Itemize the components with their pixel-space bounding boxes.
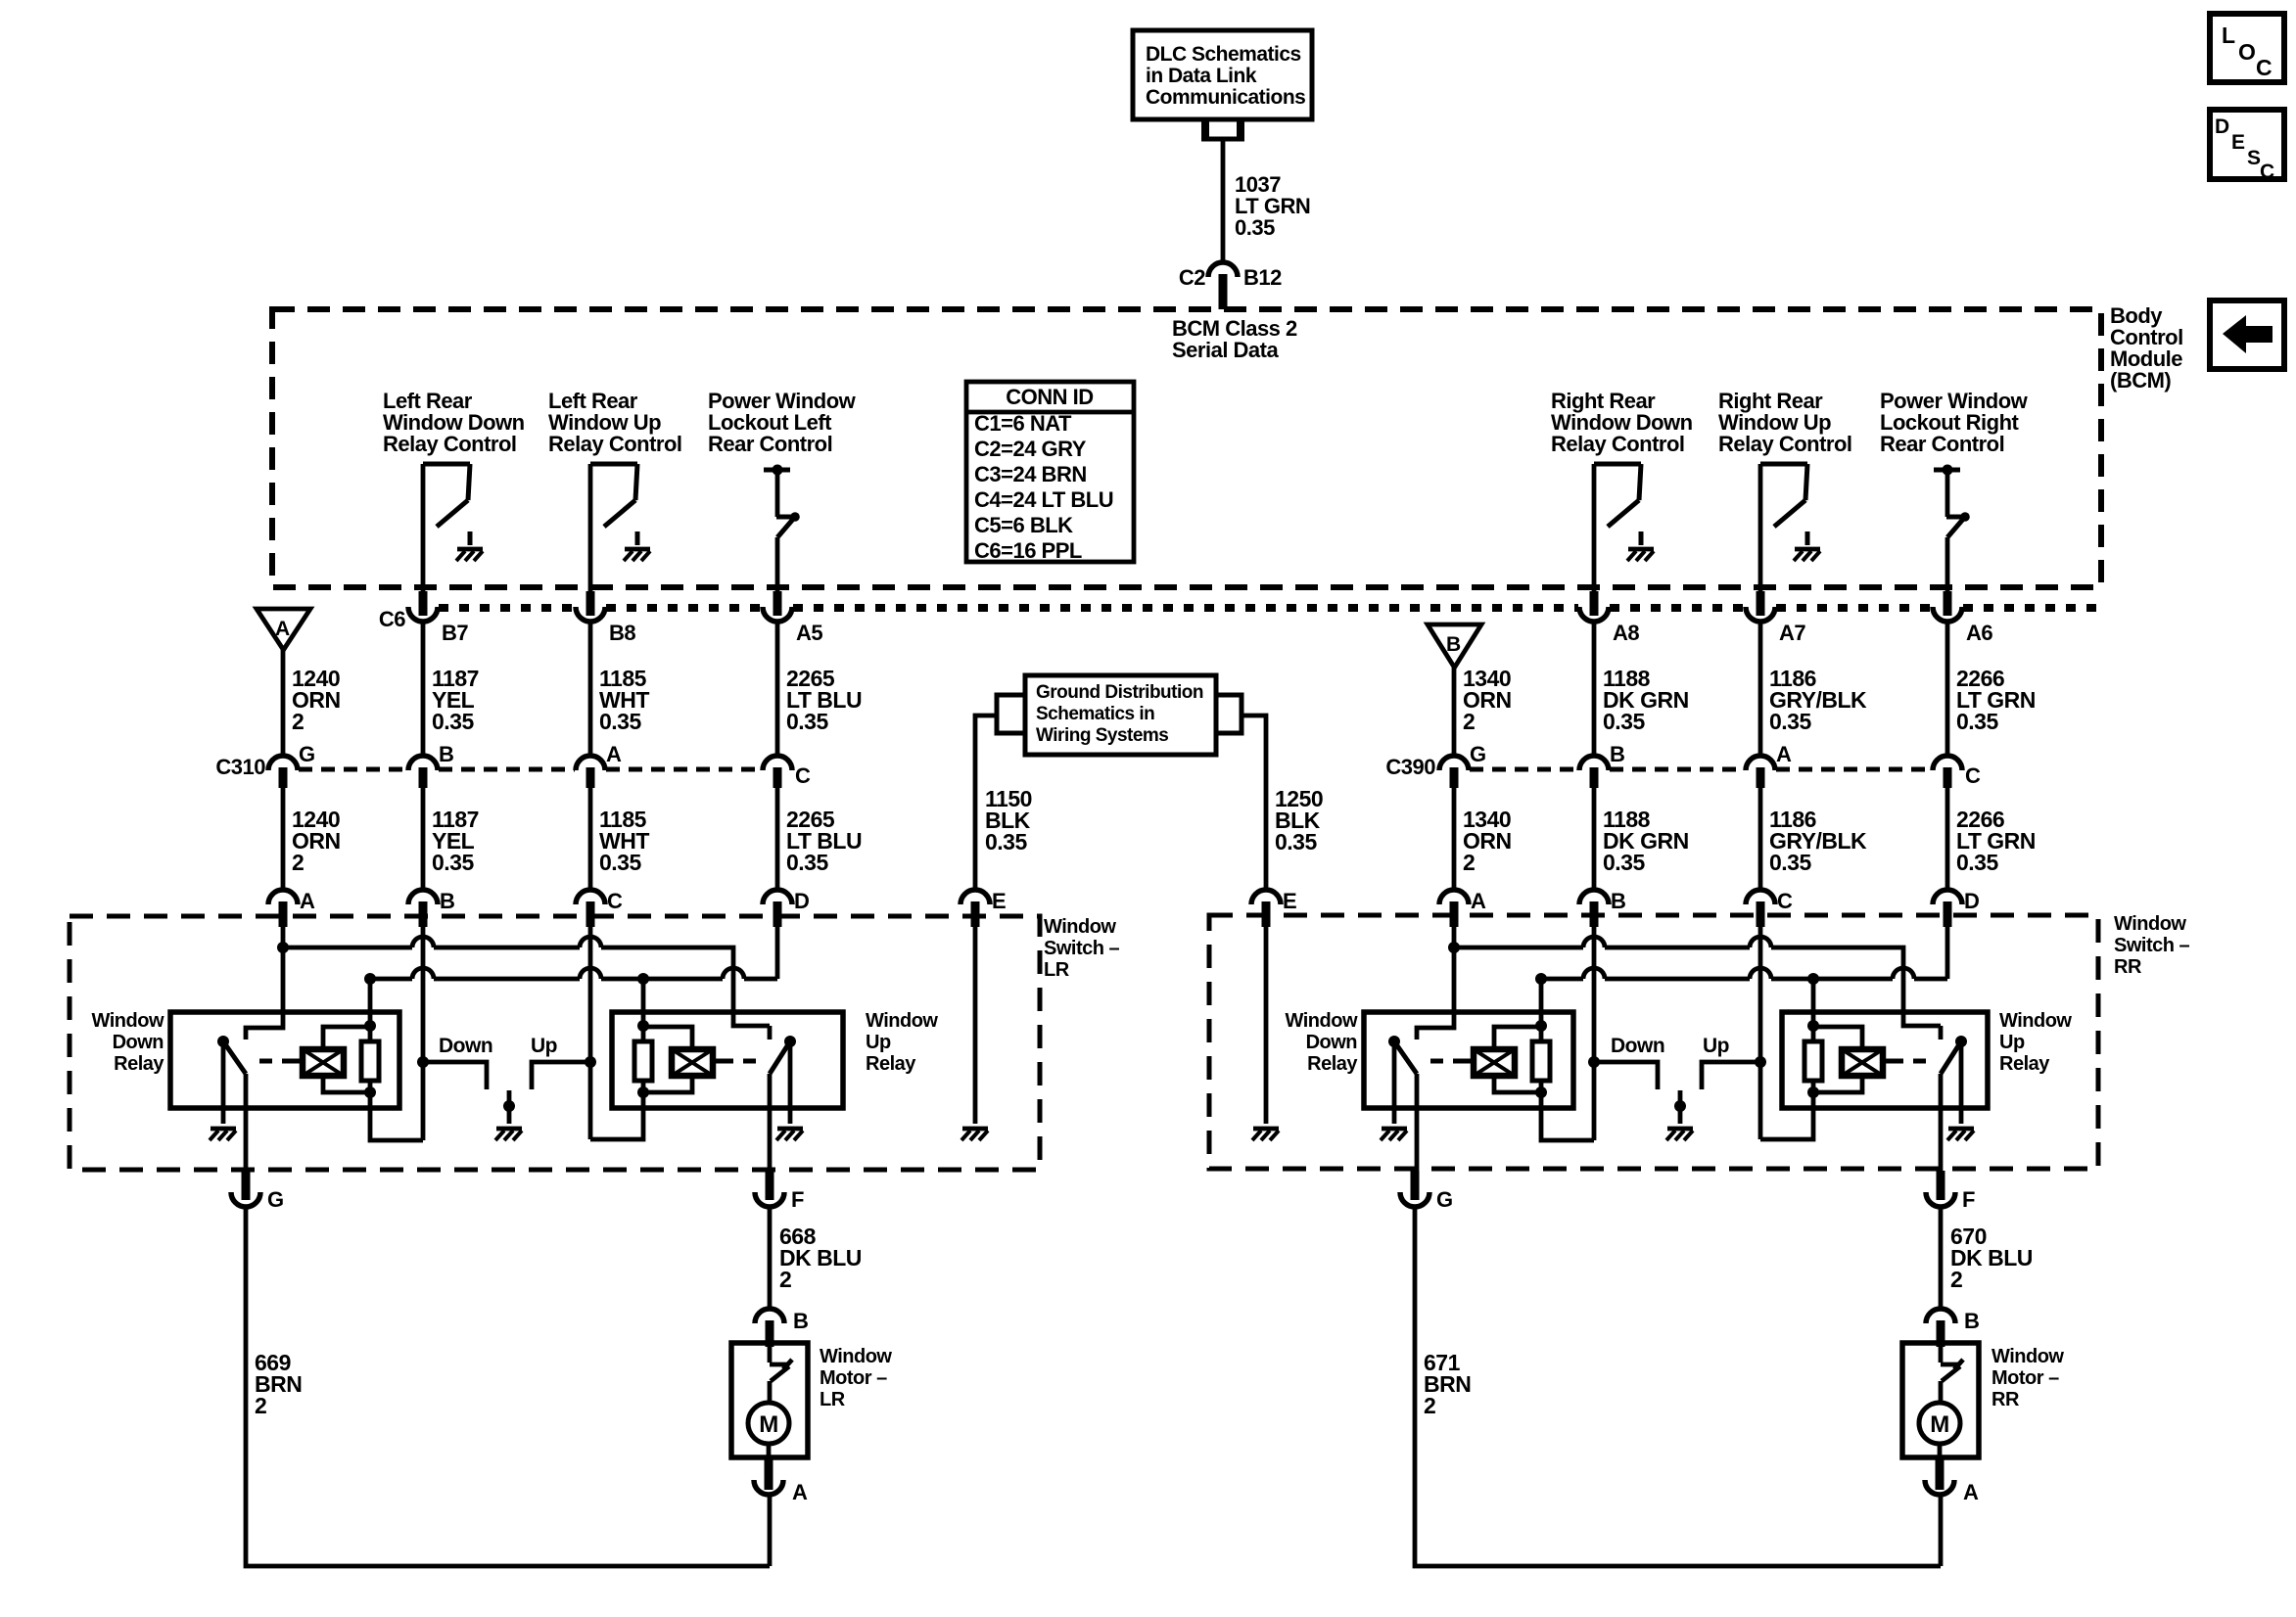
wire: [421, 622, 426, 754]
svg-text:C: C: [2260, 161, 2274, 183]
relay coil (down relay LR): [303, 1027, 370, 1092]
svg-text:DLC Schematics: DLC Schematics: [1146, 43, 1301, 66]
resistor (up relay LR): [634, 979, 652, 1098]
wire: [1945, 927, 1950, 979]
svg-text:0.35: 0.35: [786, 709, 828, 734]
connector pin A (C310): [576, 742, 622, 788]
connector pin G (RR): [1400, 1171, 1453, 1212]
connector pin G (LR): [231, 1171, 284, 1212]
switch Left Rear Window Down relay control: [423, 464, 470, 545]
connector pin A (window switch): [1439, 889, 1486, 927]
wire 671 BRN: [1415, 1207, 1941, 1566]
svg-text:Relay Control: Relay Control: [548, 432, 682, 456]
wire: [421, 788, 426, 889]
label Window Up Relay (LR): [866, 1010, 938, 1075]
ground: [1627, 549, 1654, 561]
LOC reference box: [2210, 14, 2284, 82]
ground: [495, 1129, 522, 1140]
wire: [588, 788, 593, 889]
wire: [1592, 622, 1597, 754]
connector pin B (window switch): [408, 889, 454, 927]
svg-text:B: B: [1964, 1309, 1979, 1333]
connector pin D (window switch): [1933, 889, 1979, 927]
svg-text:Relay Control: Relay Control: [1551, 432, 1685, 456]
svg-text:C6: C6: [379, 607, 405, 631]
wire 1250 BLK: [1242, 716, 1266, 889]
svg-text:DK BLU: DK BLU: [1950, 1245, 2033, 1270]
connector pin A8: [1579, 591, 1639, 645]
wire: [588, 464, 593, 591]
switch Up contact (RR): [1702, 1035, 1760, 1089]
svg-text:A7: A7: [1779, 621, 1805, 645]
relay contact (down relay LR): [217, 1036, 246, 1074]
svg-text:S: S: [2247, 147, 2261, 169]
svg-text:G: G: [299, 742, 315, 766]
wire 1150 BLK: [975, 716, 997, 889]
svg-text:0.35: 0.35: [1275, 829, 1317, 855]
svg-text:RR: RR: [2114, 956, 2142, 978]
label 1187 YEL 0.35: [432, 807, 479, 875]
svg-text:2: 2: [255, 1393, 266, 1418]
connector pin C (window switch): [1746, 889, 1793, 927]
connector pin F (RR): [1926, 1171, 1975, 1212]
svg-text:C: C: [1777, 889, 1793, 913]
relay Window Up Relay (LR) box: [612, 1012, 843, 1108]
arrow marker box: [2210, 300, 2284, 369]
label Left Rear Window Down Relay Control: [383, 389, 525, 456]
svg-text:Schematics in: Schematics in: [1036, 704, 1154, 724]
Window Switch - LR box: [70, 916, 1120, 1170]
svg-text:Down: Down: [1611, 1035, 1664, 1057]
label 669 BRN 2: [255, 1350, 302, 1418]
svg-text:RR: RR: [1991, 1389, 2020, 1410]
wire: [768, 1074, 773, 1171]
svg-text:0.35: 0.35: [1769, 850, 1811, 875]
wire lockout feed bus (LR): [364, 968, 777, 985]
svg-text:F: F: [1962, 1187, 1975, 1212]
label 1186 GRY/BLK 0.35: [1769, 807, 1867, 875]
relay coil (down relay RR): [1474, 1027, 1541, 1092]
connector pin B8: [576, 591, 635, 645]
svg-text:Down: Down: [1306, 1032, 1357, 1053]
connector pin C (C310): [763, 756, 811, 788]
svg-text:0.35: 0.35: [599, 850, 641, 875]
svg-text:A: A: [1776, 742, 1792, 766]
svg-text:2: 2: [292, 709, 304, 734]
svg-text:C: C: [2256, 55, 2272, 80]
svg-text:D: D: [2215, 115, 2229, 138]
svg-text:Serial Data: Serial Data: [1172, 338, 1279, 362]
Body Control Module (BCM) box: [272, 303, 2183, 587]
node A (triangle): [257, 609, 310, 650]
connector pin C (C390): [1933, 756, 1981, 788]
DESC reference box: [2210, 110, 2284, 183]
svg-text:A: A: [792, 1480, 808, 1504]
svg-text:Window: Window: [866, 1010, 938, 1032]
svg-text:Up: Up: [531, 1035, 557, 1057]
svg-text:Up: Up: [1703, 1035, 1729, 1057]
wire: [417, 927, 429, 1140]
switch power window lockout: [764, 465, 800, 592]
wire: [1939, 1074, 1944, 1171]
resistor (up relay RR): [1804, 979, 1822, 1098]
label 1150 BLK 0.35: [985, 786, 1032, 855]
svg-text:Communications: Communications: [1146, 86, 1305, 109]
svg-text:Motor –: Motor –: [820, 1367, 887, 1389]
actuation link (down relay LR): [259, 1059, 303, 1064]
label 1037 LT GRN 0.35: [1235, 172, 1310, 240]
svg-text:C390: C390: [1385, 755, 1435, 779]
switch Right Rear Window Down relay control: [1594, 464, 1641, 545]
svg-text:A: A: [606, 742, 622, 766]
svg-text:C2=24 GRY: C2=24 GRY: [974, 437, 1087, 461]
svg-text:M: M: [759, 1411, 778, 1438]
switch common pivot ground (RR): [1674, 1090, 1686, 1124]
actuation link (up relay LR): [713, 1059, 756, 1064]
label 1340 ORN 2: [1463, 666, 1512, 734]
relay Window Down Relay (RR) box: [1364, 1012, 1573, 1108]
ground: [1794, 549, 1820, 561]
switch Up contact (LR): [531, 1035, 590, 1089]
connector pin F (LR): [755, 1171, 804, 1212]
relay coil (up relay RR): [1813, 1027, 1883, 1092]
wire: [1417, 927, 1454, 1039]
wire: [246, 927, 283, 1039]
actuation link (down relay RR): [1430, 1059, 1474, 1064]
svg-text:A: A: [275, 618, 290, 640]
svg-text:0.35: 0.35: [1603, 709, 1645, 734]
svg-text:B: B: [793, 1309, 808, 1333]
wire: [588, 622, 593, 754]
wire: [1415, 1074, 1420, 1171]
connector pin G (C310): [268, 742, 315, 788]
svg-text:Wiring Systems: Wiring Systems: [1036, 725, 1168, 746]
connector pin C (window switch): [576, 889, 623, 927]
resistor (down relay LR): [361, 979, 379, 1098]
label 2266 LT GRN 0.35: [1956, 807, 2036, 875]
svg-text:Relay: Relay: [114, 1053, 164, 1075]
svg-text:Window: Window: [1286, 1010, 1358, 1032]
svg-text:2: 2: [1463, 850, 1475, 875]
wire 668 DK BLU: [768, 1207, 773, 1307]
svg-text:Window: Window: [1999, 1010, 2072, 1032]
svg-text:A: A: [300, 889, 315, 913]
wire: [1945, 622, 1950, 754]
svg-text:C2: C2: [1179, 265, 1205, 290]
connector C2 / B12: [1179, 262, 1282, 309]
label 668 DK BLU 2: [779, 1224, 862, 1292]
wire bus down-feed (RR): [1448, 937, 1941, 1039]
svg-text:0.35: 0.35: [432, 850, 474, 875]
label Power Window Lockout Right Rear Control: [1880, 389, 2029, 456]
label 671 BRN 2: [1424, 1350, 1471, 1418]
wire 1037 LT GRN: [1221, 139, 1226, 260]
wire bus down-feed (LR): [277, 937, 770, 1039]
ground: [210, 1129, 236, 1140]
svg-text:A: A: [1471, 889, 1486, 913]
wire: [281, 650, 286, 754]
svg-text:A5: A5: [796, 621, 822, 645]
svg-text:E: E: [2231, 131, 2245, 154]
label 2266 LT GRN 0.35: [1956, 666, 2036, 734]
wire: [1588, 927, 1600, 1140]
svg-text:0.35: 0.35: [432, 709, 474, 734]
wire: [1959, 1041, 1964, 1124]
svg-text:in Data Link: in Data Link: [1146, 65, 1257, 87]
ground: [776, 1129, 803, 1140]
bracket right: [1216, 695, 1242, 733]
connector pin D (window switch): [763, 889, 809, 927]
svg-text:Up: Up: [866, 1032, 891, 1053]
resistor (down relay RR): [1532, 979, 1550, 1098]
svg-text:A6: A6: [1966, 621, 1992, 645]
switch Right Rear Window Up relay control: [1760, 464, 1807, 545]
wire: [244, 1074, 249, 1171]
svg-text:Window: Window: [1044, 916, 1116, 938]
relay contact (up relay LR): [770, 1036, 796, 1074]
svg-text:G: G: [1470, 742, 1486, 766]
svg-text:G: G: [1436, 1187, 1453, 1212]
svg-text:Relay Control: Relay Control: [383, 432, 517, 456]
label 2265 LT BLU 0.35: [786, 666, 862, 734]
svg-text:0.35: 0.35: [985, 829, 1027, 855]
ground: [1666, 1129, 1693, 1140]
svg-text:0.35: 0.35: [1956, 850, 1998, 875]
Window Switch - RR box: [1209, 913, 2190, 1169]
switch power window lockout: [1934, 465, 1970, 592]
connector pin G (C390): [1439, 742, 1486, 788]
node B (triangle): [1428, 624, 1481, 668]
label Window Down Relay (LR): [92, 1010, 165, 1075]
label 670 DK BLU 2: [1950, 1224, 2033, 1292]
ground: [1381, 1129, 1407, 1140]
connector row C390 (dashed): [1470, 767, 1932, 772]
label 1240 ORN 2: [292, 807, 341, 875]
svg-text:2: 2: [292, 850, 304, 875]
ground: [624, 549, 650, 561]
wire: [1452, 788, 1457, 889]
label Left Rear Window Up Relay Control: [548, 389, 682, 456]
node BCM Class 2 Serial Data: [1172, 316, 1297, 362]
relay contact (up relay RR): [1941, 1036, 1967, 1074]
svg-text:G: G: [267, 1187, 284, 1212]
DLC connector fork: [1201, 119, 1244, 139]
ground: [456, 549, 483, 561]
svg-text:2: 2: [779, 1267, 791, 1292]
connector pin B (motor LR): [755, 1309, 808, 1347]
CONN ID table: [966, 382, 1134, 563]
wire 669 BRN: [246, 1207, 770, 1566]
svg-text:CONN ID: CONN ID: [1006, 385, 1093, 409]
wire: [1755, 927, 1766, 1139]
svg-text:E: E: [992, 889, 1006, 913]
wire: [1758, 622, 1763, 754]
svg-text:Window: Window: [820, 1346, 892, 1367]
svg-text:E: E: [1283, 889, 1296, 913]
svg-text:Relay: Relay: [1307, 1053, 1358, 1075]
connector pin B7: [379, 591, 469, 645]
svg-text:0.35: 0.35: [1603, 850, 1645, 875]
label 1250 BLK 0.35: [1275, 786, 1323, 855]
svg-text:Relay: Relay: [866, 1053, 916, 1075]
label C390: [1385, 755, 1435, 779]
Ground Distribution reference box: [1025, 675, 1216, 755]
switch Down contact (RR): [1594, 1035, 1664, 1089]
label 1188 DK GRN 0.35: [1603, 807, 1689, 875]
svg-text:Down: Down: [113, 1032, 164, 1053]
svg-text:Motor –: Motor –: [1991, 1367, 2059, 1389]
wire: [421, 464, 426, 591]
actuation link (up relay RR): [1883, 1059, 1927, 1064]
wire: [1945, 788, 1950, 889]
svg-text:Relay Control: Relay Control: [1718, 432, 1852, 456]
ground: [1947, 1129, 1974, 1140]
svg-text:B12: B12: [1243, 265, 1282, 290]
svg-text:C4=24 LT BLU: C4=24 LT BLU: [974, 487, 1113, 512]
svg-text:0.35: 0.35: [1769, 709, 1811, 734]
svg-text:F: F: [791, 1187, 804, 1212]
svg-text:(BCM): (BCM): [2110, 368, 2171, 393]
wire: [1760, 1092, 1813, 1139]
svg-text:C3=24 BRN: C3=24 BRN: [974, 462, 1087, 486]
BCM connector row (dotted): [439, 604, 2101, 612]
wire: [1758, 464, 1763, 591]
svg-text:C5=6 BLK: C5=6 BLK: [974, 513, 1073, 537]
relay contact (down relay RR): [1388, 1036, 1417, 1074]
svg-text:0.35: 0.35: [1956, 709, 1998, 734]
svg-text:D: D: [1964, 889, 1979, 913]
svg-text:Ground Distribution: Ground Distribution: [1036, 682, 1203, 703]
label Right Rear Window Up Relay Control: [1718, 389, 1852, 456]
label Window Up Relay (RR): [1999, 1010, 2072, 1075]
svg-text:B: B: [1611, 889, 1625, 913]
wire: [775, 622, 780, 754]
relay coil (up relay LR): [643, 1027, 713, 1092]
svg-text:B7: B7: [442, 621, 468, 645]
svg-text:0.35: 0.35: [599, 709, 641, 734]
wire: [1541, 1092, 1594, 1140]
wire lockout feed bus (RR): [1535, 968, 1947, 985]
connector row C310 (dashed): [299, 767, 762, 772]
connector pin B (window switch): [1579, 889, 1625, 927]
svg-text:O: O: [2238, 39, 2255, 65]
relay Window Up Relay (RR) box: [1782, 1012, 1988, 1108]
svg-text:Window: Window: [2114, 913, 2186, 935]
connector pin A (C390): [1746, 742, 1792, 788]
svg-text:Switch –: Switch –: [1044, 938, 1120, 959]
wire: [788, 1041, 793, 1124]
wire: [1592, 464, 1597, 591]
wire ground lead (RR): [1264, 927, 1269, 1124]
ground: [961, 1129, 988, 1140]
svg-text:Rear Control: Rear Control: [708, 432, 832, 456]
label Power Window Lockout Left Rear Control: [708, 389, 857, 456]
label C310: [215, 755, 265, 779]
connector pin A (window switch): [268, 889, 315, 927]
wire: [1758, 788, 1763, 889]
label Right Rear Window Down Relay Control: [1551, 389, 1693, 456]
connector pin A (motor LR): [754, 1457, 808, 1504]
connector pin E (window switch): [1251, 889, 1296, 927]
svg-text:2: 2: [1424, 1393, 1435, 1418]
svg-text:B: B: [1446, 633, 1461, 656]
wire: [1592, 788, 1597, 889]
relay Window Down Relay (LR) box: [170, 1012, 399, 1108]
switch Down contact (LR): [423, 1035, 492, 1089]
wire: [1392, 1041, 1397, 1124]
svg-text:M: M: [1930, 1411, 1949, 1438]
wire: [585, 927, 596, 1139]
connector pin B (C310): [408, 742, 453, 788]
wire ground lead (LR): [973, 927, 978, 1124]
wire: [1452, 668, 1457, 754]
svg-text:2: 2: [1950, 1267, 1962, 1292]
svg-text:Down: Down: [439, 1035, 492, 1057]
bracket left: [997, 695, 1025, 733]
label 1188 DK GRN 0.35: [1603, 666, 1689, 734]
motor Window Motor - LR: [731, 1343, 892, 1457]
svg-text:Rear Control: Rear Control: [1880, 432, 2004, 456]
svg-text:L: L: [2222, 23, 2235, 48]
label Window Down Relay (RR): [1286, 1010, 1359, 1075]
DLC Schematics reference box: [1133, 30, 1312, 119]
label 1340 ORN 2: [1463, 807, 1512, 875]
svg-text:B: B: [440, 889, 454, 913]
label 1186 GRY/BLK 0.35: [1769, 666, 1867, 734]
switch Left Rear Window Up relay control: [590, 464, 637, 545]
connector pin A7: [1746, 591, 1805, 645]
connector pin B (C390): [1579, 742, 1624, 788]
connector pin A (motor RR): [1925, 1457, 1979, 1504]
svg-text:Up: Up: [1999, 1032, 2025, 1053]
connector pin A5: [763, 591, 822, 645]
svg-text:0.35: 0.35: [786, 850, 828, 875]
wire: [281, 788, 286, 889]
label 2265 LT BLU 0.35: [786, 807, 862, 875]
svg-text:C310: C310: [215, 755, 265, 779]
label 1187 YEL 0.35: [432, 666, 479, 734]
wire: [775, 788, 780, 889]
svg-text:D: D: [794, 889, 809, 913]
ground: [1252, 1129, 1279, 1140]
connector pin E (window switch): [961, 889, 1006, 927]
svg-text:C1=6 NAT: C1=6 NAT: [974, 411, 1072, 436]
svg-text:C: C: [795, 763, 811, 788]
connector pin A6: [1933, 591, 1992, 645]
wire: [370, 1092, 423, 1140]
svg-text:A: A: [1963, 1480, 1979, 1504]
svg-text:Relay: Relay: [1999, 1053, 2050, 1075]
svg-text:LR: LR: [820, 1389, 846, 1410]
svg-text:C: C: [1965, 763, 1981, 788]
svg-text:0.35: 0.35: [1235, 215, 1275, 240]
svg-text:Switch –: Switch –: [2114, 935, 2190, 956]
svg-text:C: C: [607, 889, 623, 913]
svg-text:B: B: [439, 742, 453, 766]
motor Window Motor - RR: [1902, 1343, 2064, 1457]
svg-text:LR: LR: [1044, 959, 1070, 981]
svg-text:B: B: [1610, 742, 1624, 766]
label 1240 ORN 2: [292, 666, 341, 734]
wire: [775, 927, 780, 979]
svg-text:Window: Window: [1991, 1346, 2064, 1367]
wire: [221, 1041, 226, 1124]
svg-text:A8: A8: [1613, 621, 1639, 645]
svg-text:B8: B8: [609, 621, 635, 645]
svg-text:Window: Window: [92, 1010, 164, 1032]
svg-text:DK BLU: DK BLU: [779, 1245, 862, 1270]
label 1185 WHT 0.35: [599, 666, 649, 734]
